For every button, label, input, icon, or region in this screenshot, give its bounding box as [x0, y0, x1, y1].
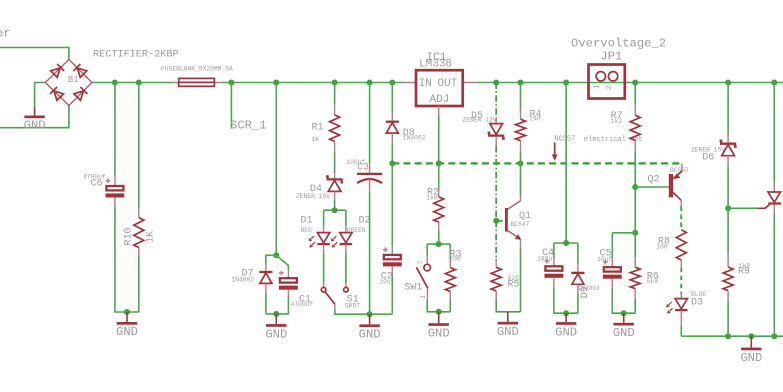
ground	[438, 312, 440, 323]
wire top rail left of fuse	[92, 82, 173, 84]
transistor Q2 BC557	[648, 163, 690, 206]
wire bridge left vertex to ground tap	[35, 83, 46, 109]
wire C3 branch lower	[369, 193, 371, 315]
wire SCR anode from rail	[773, 83, 775, 182]
wire Q1 emitter to ground	[520, 248, 522, 312]
wire D7 lower	[265, 293, 267, 314]
svg-text:4700uf: 4700uf	[291, 301, 314, 308]
switch SW1	[404, 255, 430, 300]
wire C6 branch lower	[115, 206, 139, 312]
wire to D9	[577, 243, 579, 264]
svg-text:Q2: Q2	[648, 175, 660, 186]
resistor R8 100	[656, 230, 686, 268]
wire bottom right ground rail	[681, 335, 783, 337]
svg-text:2: 2	[606, 85, 614, 89]
wire D8 branch from rail	[391, 83, 393, 113]
fuse F1 FUSEBLANK_5X20MM.5A	[161, 66, 233, 87]
ground	[369, 314, 371, 324]
svg-text:ADJ: ADJ	[430, 94, 450, 106]
diode D7 1N4002	[232, 265, 273, 294]
wire R6 lower	[634, 299, 636, 313]
wire to C1	[276, 255, 288, 270]
ground	[34, 107, 36, 116]
wire D2 to S1 throw	[345, 253, 347, 284]
wire D6 branch from rail	[727, 83, 729, 135]
resistor R5 820	[491, 259, 519, 300]
wire ADJ pin to dashed net	[438, 115, 440, 164]
capacitor C5 10uf	[597, 249, 622, 289]
svg-text:Overvoltage_2: Overvoltage_2	[571, 36, 666, 50]
zener diode D6 ZENER 15V	[691, 135, 737, 166]
capacitor C4 100uf	[537, 248, 563, 288]
svg-text:1N4002: 1N4002	[232, 277, 255, 284]
svg-text:IN: IN	[419, 78, 432, 90]
wire top rail fuse to IC1	[221, 82, 404, 84]
svg-text:1K: 1K	[146, 231, 157, 243]
svg-text:1N4002: 1N4002	[403, 135, 426, 142]
svg-text:D1: D1	[301, 216, 313, 227]
wire D3 to bottom rail	[680, 326, 682, 337]
dash-dot net D5 to Q1 base	[495, 83, 497, 117]
wire R7 branch from rail	[634, 83, 636, 105]
svg-text:R5: R5	[508, 279, 520, 290]
wire to R6	[634, 233, 636, 258]
node junction rail C6	[112, 80, 118, 86]
capacitor C1 4700uf	[279, 271, 313, 308]
ground	[565, 313, 567, 322]
switch S1 SPDT	[321, 287, 360, 310]
wire D7 C1 branch from rail	[275, 83, 277, 256]
svg-text:R1: R1	[312, 123, 324, 134]
node junction C5 R6 ground	[621, 310, 627, 316]
resistor R6 6k8	[630, 258, 659, 299]
IC1 LM338 regulator	[404, 52, 476, 115]
wire to D2	[345, 210, 347, 226]
node junction D4 LEDs	[332, 207, 338, 213]
ground	[507, 312, 509, 322]
svg-text:D6: D6	[702, 153, 714, 164]
node junction rail C4	[563, 80, 569, 86]
resistor R3 200	[445, 250, 461, 300]
resistor R2 1k8	[426, 188, 443, 231]
svg-text:D9: D9	[580, 286, 591, 298]
wire to D1	[323, 210, 325, 226]
svg-text:D3: D3	[691, 298, 703, 309]
wire R10 branch lower	[138, 256, 140, 312]
wire D9 lower	[577, 294, 579, 313]
wire C2 lower	[391, 276, 393, 315]
node junction rail D6	[725, 80, 731, 86]
wire ADJ net to R2	[438, 163, 440, 188]
connector JP1	[589, 50, 625, 99]
capacitor C3 100nf	[346, 159, 382, 193]
wire C4 lower	[554, 288, 578, 313]
wire R1 to D4	[334, 151, 336, 174]
zener diode D4 ZENER 10V	[296, 174, 343, 201]
svg-text:FUSEBLANK_5X20MM.5A: FUSEBLANK_5X20MM.5A	[161, 66, 233, 73]
node junction rail SCR_1	[228, 80, 234, 86]
svg-text:JP1: JP1	[600, 50, 622, 64]
capacitor C6 4700uf	[83, 174, 124, 207]
node junction dashed net R4	[518, 160, 524, 166]
svg-text:1: 1	[420, 295, 427, 299]
node junction SW1 R3 ground	[436, 309, 442, 315]
node junction bottom C3 ground	[367, 311, 373, 317]
svg-text:1k2: 1k2	[611, 118, 623, 125]
wire R9 lower	[727, 301, 729, 336]
wire base tap to Q2	[635, 186, 669, 188]
svg-text:GND: GND	[24, 119, 46, 133]
wire D6 to gate junction	[727, 166, 729, 209]
node junction dashed net D8	[389, 160, 395, 166]
node junction R9 bottom	[725, 333, 731, 339]
node junction ground stem	[748, 333, 754, 339]
wire R5 to ground	[496, 300, 520, 312]
wire C6 branch upper	[114, 83, 116, 176]
ground	[275, 314, 277, 324]
wire D8 to dashed net	[391, 144, 393, 164]
wire D8 net to C2	[391, 163, 393, 246]
wire to SW1	[426, 244, 428, 255]
svg-text:1: 1	[594, 85, 602, 89]
dashed net ADJ sense	[392, 162, 682, 164]
node junction C6 R10 ground	[124, 309, 130, 315]
zener diode D5 ZENER 12V	[463, 111, 505, 146]
svg-text:1K: 1K	[312, 136, 320, 143]
node junction rail R4	[518, 80, 524, 86]
svg-text:er: er	[0, 27, 11, 41]
svg-text:RED: RED	[301, 227, 313, 234]
wire C3 branch upper	[369, 83, 371, 164]
svg-text:SPDT: SPDT	[345, 302, 360, 309]
transistor Q1 BC547	[505, 197, 531, 248]
wire to D7	[266, 255, 276, 264]
net stub SCR_1	[230, 83, 232, 129]
wire R4 branch from rail	[520, 83, 522, 111]
svg-text:SCR_1: SCR_1	[230, 119, 267, 133]
svg-text:R9: R9	[738, 266, 750, 277]
wire SCR cathode to bottom rail	[773, 214, 775, 337]
wire R7 to Q2 base and C5 R6	[634, 151, 636, 233]
resistor R7 1k2	[611, 105, 640, 152]
svg-text:BC547: BC547	[511, 221, 530, 228]
svg-text:R10: R10	[124, 227, 135, 245]
wire dashed net to Q1 collector	[520, 163, 522, 197]
wire R2 to SW1 R3 junction	[427, 231, 450, 245]
node junction rail D7	[273, 80, 279, 86]
svg-text:100uf: 100uf	[537, 255, 556, 262]
wire C5 lower	[612, 289, 635, 314]
wire S1 common to ground rail	[335, 310, 392, 314]
wire R4 to dashed net	[520, 152, 522, 164]
wire top rail IC1 to right edge	[476, 82, 783, 84]
thyristor SCR	[758, 182, 781, 214]
resistor R10 1K	[124, 208, 157, 257]
wire R3 lower	[449, 300, 451, 312]
wire gate	[728, 207, 758, 209]
wire R10 branch upper	[138, 83, 140, 208]
svg-text:C3: C3	[357, 163, 369, 174]
node junction Q2 base tap	[632, 184, 638, 190]
node junction rail R1	[332, 80, 338, 86]
wire dashed R8 to D3	[680, 268, 682, 294]
node junction D6 gate R9	[725, 205, 731, 211]
svg-text:240: 240	[530, 115, 542, 122]
resistor R1 1K	[312, 105, 340, 152]
svg-text:6k8: 6k8	[647, 278, 659, 285]
svg-text:ZENER 10V: ZENER 10V	[296, 193, 330, 200]
svg-text:C6: C6	[91, 179, 103, 190]
wire C4 D9 branch from rail	[554, 83, 578, 244]
node junction SCR cathode bottom	[771, 333, 777, 339]
svg-text:SW1: SW1	[404, 282, 422, 293]
svg-text:200: 200	[450, 256, 462, 263]
wire R1 branch from rail	[334, 83, 336, 105]
node junction rail D5	[493, 80, 499, 86]
wire C1 lower	[266, 298, 289, 314]
bridge rectifier B1	[45, 60, 92, 106]
node junction C4 D9 ground	[563, 310, 569, 316]
wire SW1 to ground junction	[427, 300, 450, 312]
svg-text:RECTIFIER-2KBP: RECTIFIER-2KBP	[93, 50, 179, 61]
svg-text:D2: D2	[359, 216, 371, 227]
svg-text:10uf: 10uf	[597, 256, 612, 263]
wire to R3	[449, 244, 451, 258]
diode D9 1N4002	[571, 264, 600, 299]
ground	[623, 313, 625, 323]
wire to C4	[553, 243, 555, 257]
ground	[750, 336, 752, 347]
svg-text:OUT: OUT	[438, 78, 458, 90]
LED D3 BLUE	[666, 291, 706, 326]
annotation arrow	[554, 143, 556, 156]
svg-text:GREEN: GREEN	[347, 227, 366, 234]
ground	[126, 312, 128, 322]
diode D8 1N4002	[386, 113, 426, 144]
svg-text:2: 2	[416, 260, 423, 264]
dash-dot net D5 to base junction	[496, 146, 505, 259]
svg-text:1k8: 1k8	[426, 195, 438, 202]
node junction rail R7	[632, 80, 638, 86]
wire to R9	[727, 208, 729, 253]
svg-text:LM338: LM338	[419, 59, 452, 71]
wire AC input bottom	[0, 106, 69, 128]
node junction base R5	[493, 218, 499, 224]
node junction D7 C1 bottom	[273, 311, 279, 317]
node junction rail D8	[389, 80, 395, 86]
LED D1 RED	[301, 216, 330, 254]
LED D2 GREEN	[331, 216, 371, 254]
wire D1 to S1 throw	[323, 253, 325, 284]
svg-text:ZENER 12V: ZENER 12V	[463, 116, 497, 123]
node junction rail C3	[367, 80, 373, 86]
svg-text:BC557: BC557	[554, 136, 575, 144]
svg-text:BC557: BC557	[670, 167, 689, 174]
node junction rail SCR anode	[771, 80, 777, 86]
node junction C4 D9 top	[563, 240, 569, 246]
node junction rail R10	[136, 80, 142, 86]
capacitor C2 10uf	[379, 247, 401, 285]
svg-text:100: 100	[656, 244, 668, 251]
node junction C5 R6	[632, 230, 638, 236]
node junction D7 C1 top	[273, 252, 279, 258]
resistor R9 1k8	[723, 254, 750, 302]
wire dashed Q2 collector to R8	[680, 207, 682, 230]
node junction dashed net ADJ	[436, 160, 442, 166]
node junction R2 SW1 R3	[436, 241, 442, 247]
wire AC input top	[0, 48, 69, 60]
wire to C5	[612, 233, 635, 258]
resistor R4 240	[516, 110, 542, 152]
wire D4 to LED junction	[324, 200, 346, 210]
svg-text:B1: B1	[68, 75, 79, 85]
